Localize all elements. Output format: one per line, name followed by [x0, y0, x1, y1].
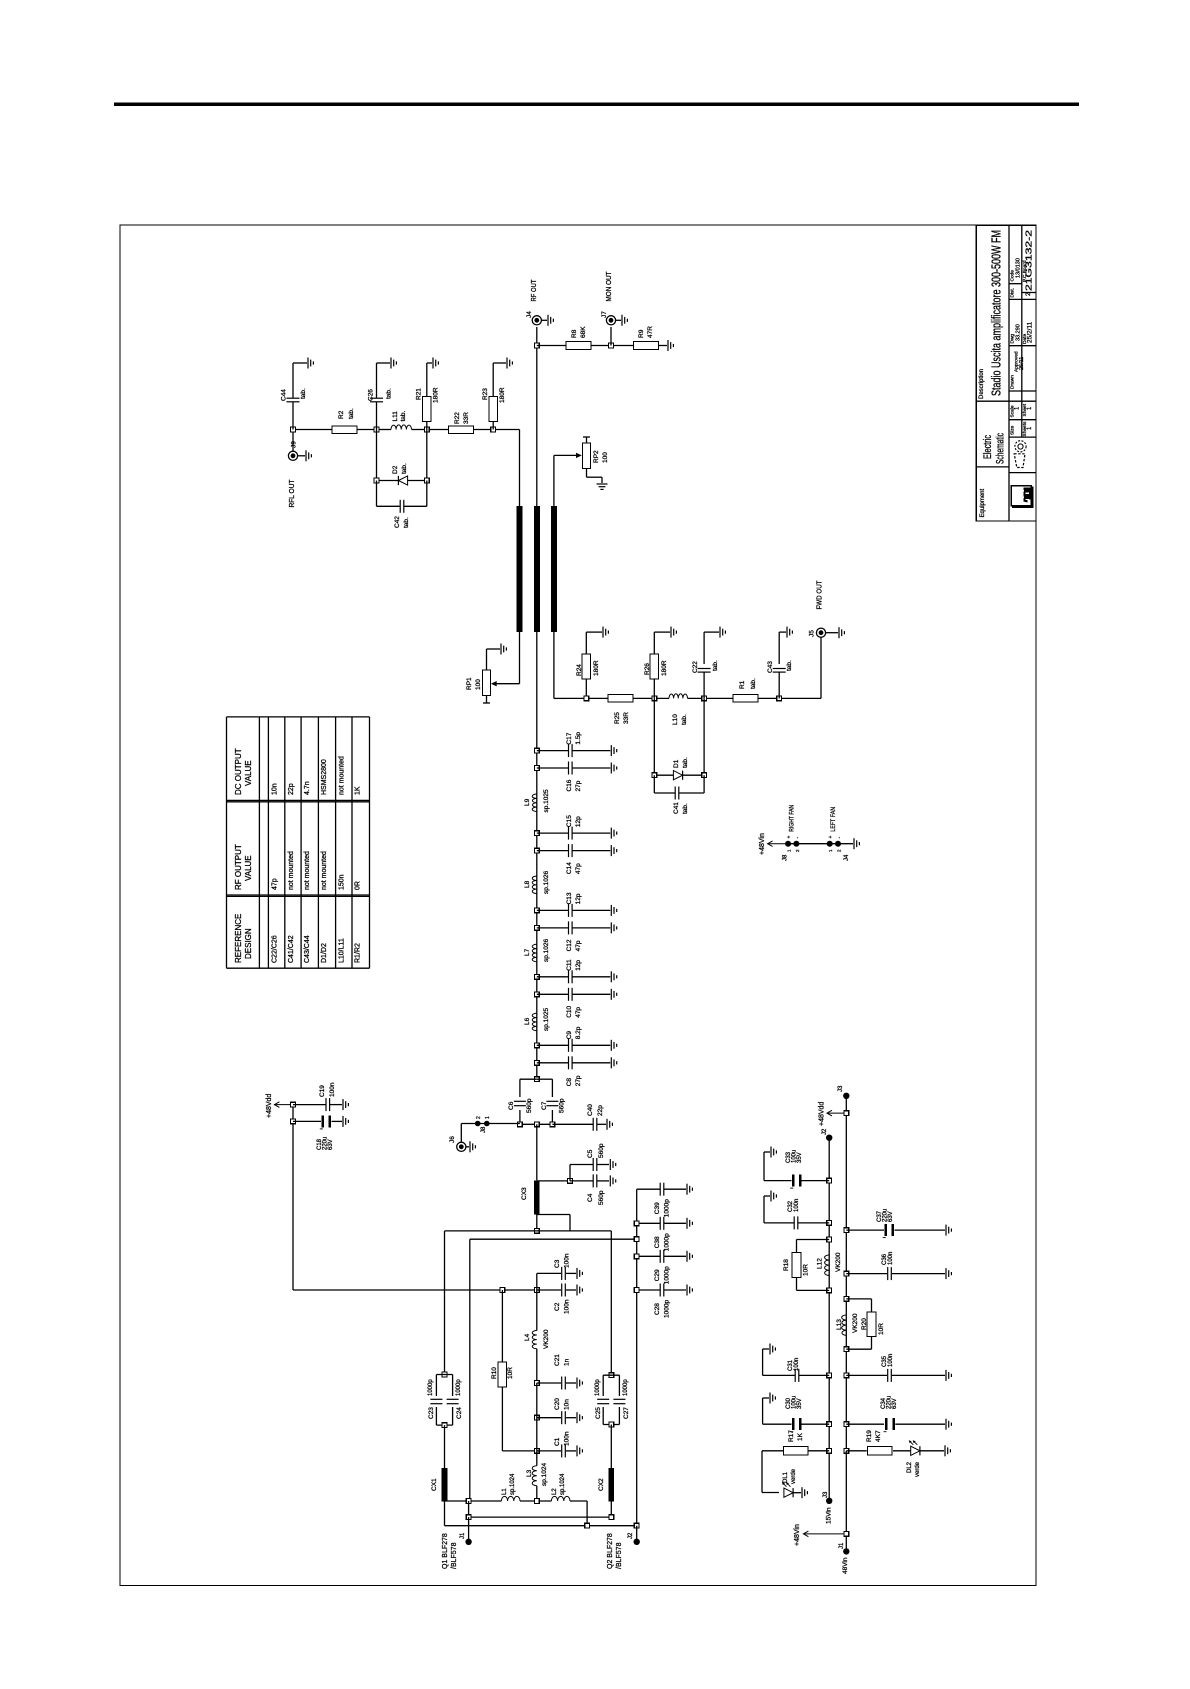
- ground at R26: [670, 627, 672, 638]
- svg-text:verde: verde: [791, 1468, 797, 1484]
- svg-text:C25: C25: [595, 1407, 602, 1419]
- node junction J7/R9: [609, 343, 614, 348]
- wire CX3 top to C4 row: [537, 1180, 570, 1182]
- ground at J5: [826, 632, 838, 634]
- svg-text:R22: R22: [454, 412, 461, 424]
- connector J4 RF OUT: [532, 316, 541, 325]
- capacitor C19: [293, 1104, 326, 1106]
- capacitor C39: [637, 1188, 660, 1190]
- connector J6: [457, 1142, 466, 1151]
- node junction C30: [827, 1422, 832, 1427]
- svg-text:1n: 1n: [564, 1358, 571, 1366]
- resistor R2: [332, 426, 357, 434]
- capacitor C37: [846, 1229, 884, 1231]
- node junction row3 right: [634, 1523, 639, 1528]
- capacitor C16: [537, 767, 569, 769]
- svg-text:RP2: RP2: [593, 450, 600, 463]
- capacitor C15: [537, 832, 569, 834]
- svg-text:C14: C14: [566, 862, 573, 874]
- svg-text:25/2/11: 25/2/11: [1027, 321, 1034, 343]
- led DL1: [784, 1488, 793, 1497]
- svg-text:560p: 560p: [526, 1098, 533, 1113]
- coupler line bar1 lower to RP1 wiper: [519, 632, 521, 684]
- svg-text:R17: R17: [788, 1430, 795, 1442]
- svg-text:Size: Size: [1010, 425, 1016, 435]
- resistor R19: [846, 1450, 866, 1452]
- svg-text:Stadio Uscita amplificatore 30: Stadio Uscita amplificatore 300-500W FM: [989, 230, 1004, 396]
- svg-text:CX2: CX2: [598, 1478, 605, 1491]
- svg-text:VK200: VK200: [835, 1252, 842, 1272]
- svg-text:D1: D1: [673, 759, 680, 768]
- svg-text:560p: 560p: [559, 1098, 566, 1113]
- capacitor C11: [537, 976, 569, 978]
- svg-text:tab.: tab.: [403, 517, 410, 528]
- wire J4 line to R8 row: [537, 345, 566, 347]
- svg-text:RIGHT FAN: RIGHT FAN: [789, 805, 796, 832]
- svg-text:RF OUTPUT: RF OUTPUT: [234, 844, 243, 890]
- svg-text:C43: C43: [767, 661, 774, 673]
- ground at R24: [602, 627, 604, 638]
- svg-text:J5: J5: [809, 630, 816, 637]
- svg-text:tab.: tab.: [348, 408, 355, 419]
- svg-text:Q2 BLF278: Q2 BLF278: [607, 1533, 614, 1569]
- wire FWD row: [566, 697, 608, 699]
- svg-text:VALUE: VALUE: [244, 855, 253, 881]
- title block logo cone: [1015, 441, 1026, 452]
- potentiometer RP1: [486, 649, 488, 670]
- svg-text:C16: C16: [566, 779, 573, 791]
- svg-text:1000p: 1000p: [664, 1300, 671, 1318]
- svg-text:sp.1026: sp.1026: [543, 938, 550, 962]
- capacitor C14: [537, 850, 569, 852]
- svg-text:10n: 10n: [564, 1399, 571, 1410]
- svg-text:4K7: 4K7: [875, 1430, 882, 1442]
- svg-text:180R: 180R: [433, 387, 440, 403]
- node junction C29: [634, 1254, 639, 1259]
- svg-text:L8: L8: [524, 880, 531, 888]
- wire bus A gate-bias rail: [445, 1230, 612, 1232]
- node junction L13 top: [844, 1297, 849, 1302]
- svg-text:1: 1: [485, 1116, 491, 1119]
- svg-text:R8: R8: [571, 329, 578, 338]
- wire J6 to J8 row: [460, 1124, 462, 1143]
- svg-text:not mounted: not mounted: [304, 851, 311, 890]
- capacitor C13: [537, 909, 569, 911]
- node junction C38: [634, 1221, 639, 1226]
- connector J2 gate: [636, 1526, 638, 1539]
- svg-text:/BLF578: /BLF578: [451, 1542, 458, 1569]
- svg-text:sp.1025: sp.1025: [543, 789, 550, 813]
- node junction C34: [844, 1422, 849, 1427]
- svg-text:L10: L10: [672, 714, 679, 725]
- svg-text:C21: C21: [554, 1354, 561, 1366]
- svg-text:47p: 47p: [575, 1007, 582, 1018]
- node junction C14: [534, 848, 539, 853]
- capacitor C40: [552, 1123, 593, 1125]
- svg-text:1K: 1K: [355, 786, 362, 795]
- svg-text:+48Vdd: +48Vdd: [266, 1094, 273, 1118]
- svg-text:560p: 560p: [598, 1190, 605, 1205]
- svg-text:C15: C15: [566, 815, 573, 827]
- svg-text:63V: 63V: [888, 1211, 894, 1222]
- svg-text:J4: J4: [526, 311, 533, 318]
- svg-text:Dist.: Dist.: [1010, 288, 1016, 298]
- svg-text:33.290: 33.290: [1016, 324, 1022, 341]
- svg-text:L10/L11: L10/L11: [339, 938, 346, 963]
- svg-text:RF OUT: RF OUT: [529, 279, 538, 301]
- svg-text:R26: R26: [644, 663, 651, 675]
- svg-text:10n: 10n: [272, 783, 279, 795]
- node junction R10 top: [500, 1288, 505, 1293]
- svg-text:C2: C2: [554, 1302, 561, 1311]
- title block frame: [976, 225, 1036, 521]
- wire gate row1: [445, 1500, 502, 1502]
- wire: RFL OUT main line: [293, 429, 332, 431]
- capacitor C9: [537, 1044, 569, 1046]
- svg-text:tab.: tab.: [401, 463, 408, 474]
- svg-text:2: 2: [1025, 292, 1032, 296]
- svg-text:63V: 63V: [892, 1398, 898, 1409]
- svg-text:47p: 47p: [272, 878, 279, 890]
- capacitor C20: [536, 1383, 538, 1418]
- wire: J4 RF OUT down to coupler bar2: [536, 327, 538, 506]
- svg-text:4.7n: 4.7n: [304, 781, 311, 795]
- capacitor pair C25/C27 block: [609, 1373, 614, 1378]
- directional coupler bar CX-B: [534, 506, 540, 632]
- svg-text:C40: C40: [587, 1104, 594, 1116]
- node junction C6/C7 top: [534, 1077, 539, 1082]
- connector pins J8: [475, 1121, 481, 1127]
- capacitor C6: [520, 1078, 537, 1080]
- svg-text:tab.: tab.: [786, 660, 793, 671]
- svg-text:1000p: 1000p: [623, 1379, 629, 1396]
- node junction C17: [534, 748, 539, 753]
- node junction C21: [534, 1381, 539, 1386]
- svg-text:C8: C8: [566, 1078, 573, 1087]
- svg-text:R1: R1: [739, 680, 746, 689]
- svg-text:J3: J3: [838, 1085, 844, 1092]
- capacitor C4: [570, 1180, 593, 1182]
- capacitor C26: [376, 402, 378, 430]
- resistor R25: [608, 695, 633, 703]
- svg-text:33R: 33R: [623, 712, 630, 724]
- wire right supply bus: [845, 1096, 847, 1451]
- connector J2 +48Vdd: [826, 1135, 832, 1141]
- wire left supply bus: [828, 1138, 830, 1501]
- node junction C22: [702, 696, 707, 701]
- svg-text:+48Vdd: +48Vdd: [819, 1102, 826, 1126]
- svg-text:1000p: 1000p: [595, 1379, 601, 1396]
- svg-text:Drawn: Drawn: [1010, 375, 1016, 389]
- svg-text:25/11: 25/11: [1019, 357, 1025, 370]
- inductor L2: [551, 1496, 570, 1501]
- svg-text:C26: C26: [368, 389, 375, 401]
- ground at RP1: [500, 644, 502, 655]
- node junction CX3/bus A: [534, 1229, 539, 1234]
- capacitor C44: [292, 402, 294, 430]
- inductor L4: [536, 1290, 538, 1331]
- svg-text:Description: Description: [979, 369, 985, 399]
- svg-text:verde: verde: [915, 1461, 921, 1477]
- svg-text:C5: C5: [587, 1149, 594, 1158]
- node junction CX2 bottom: [609, 1515, 614, 1520]
- svg-text:sp.1024: sp.1024: [541, 1462, 548, 1486]
- svg-text:+: +: [787, 836, 793, 839]
- node junction R18 bottom: [827, 1288, 832, 1293]
- svg-text:L9: L9: [524, 798, 531, 806]
- svg-text:27p: 27p: [575, 1075, 582, 1086]
- svg-text:tab.: tab.: [682, 803, 689, 814]
- svg-text:C41: C41: [673, 802, 680, 814]
- ground at J7: [616, 319, 621, 321]
- svg-text:C12: C12: [566, 939, 573, 951]
- capacitor C1: [536, 1418, 538, 1451]
- svg-text:DL1: DL1: [783, 1471, 789, 1483]
- svg-text:21G3132-2: 21G3132-2: [1025, 229, 1034, 291]
- svg-text:LEFT FAN: LEFT FAN: [830, 807, 837, 832]
- connector J1 48Vin: [843, 1548, 849, 1554]
- capacitor C34: [846, 1423, 884, 1425]
- svg-text:C39: C39: [654, 1202, 661, 1214]
- wire filter output to CX3: [536, 1124, 538, 1180]
- node junction R26: [652, 696, 657, 701]
- svg-text:tab.: tab.: [682, 757, 689, 768]
- svg-text:L6: L6: [524, 1017, 531, 1025]
- inductor L3: [536, 1451, 538, 1466]
- svg-text:C42: C42: [394, 516, 401, 528]
- drawing frame border: [120, 225, 1036, 1586]
- node junction C2 row: [534, 1288, 539, 1293]
- node junction C37: [844, 1228, 849, 1233]
- svg-text:sp.1024: sp.1024: [560, 1473, 566, 1495]
- svg-text:R9: R9: [638, 329, 645, 338]
- net entry +48Vdd right: [827, 1112, 844, 1114]
- inductor L10: [669, 694, 688, 699]
- wire: RFL node to coupler bar1: [493, 429, 519, 431]
- inductor L11: [391, 425, 412, 430]
- svg-text:not mounted: not mounted: [288, 851, 295, 890]
- svg-text:10R: 10R: [878, 1323, 885, 1335]
- svg-text:0R: 0R: [355, 881, 362, 890]
- inductor L13: [842, 1315, 847, 1335]
- svg-text:47p: 47p: [575, 940, 582, 951]
- svg-text:10R: 10R: [507, 1367, 514, 1379]
- resistor R10: [501, 1290, 503, 1362]
- svg-text:C22: C22: [692, 661, 699, 673]
- wire: RP2 wiper to coupler bar3: [553, 455, 555, 506]
- svg-text:FWD OUT: FWD OUT: [815, 580, 824, 609]
- svg-text:RFL OUT: RFL OUT: [287, 479, 296, 507]
- svg-text:J2: J2: [628, 1532, 634, 1539]
- capacitor C31: [799, 1374, 829, 1376]
- connector J5 FWD OUT: [816, 628, 825, 637]
- capacitor C35: [846, 1374, 887, 1376]
- led DL2: [911, 1446, 920, 1455]
- node junction C20: [534, 1415, 539, 1420]
- node junction C13: [534, 908, 539, 913]
- resistor R8: [566, 342, 591, 350]
- svg-text:C22/C26: C22/C26: [272, 935, 279, 963]
- svg-text:100n: 100n: [329, 1082, 336, 1097]
- svg-text:C43/C44: C43/C44: [304, 935, 311, 963]
- svg-text:C17: C17: [566, 732, 573, 744]
- resistor R22: [449, 426, 474, 434]
- svg-text:RP1: RP1: [466, 677, 473, 690]
- svg-text:tab.: tab.: [386, 388, 393, 399]
- svg-text:8.2p: 8.2p: [575, 1026, 582, 1039]
- svg-text:not mounted: not mounted: [321, 851, 328, 890]
- connector J7 MON OUT: [610, 327, 612, 346]
- coupler line bar3 lower to FWD row: [553, 632, 555, 698]
- svg-text:180R: 180R: [499, 387, 506, 403]
- wire C25/C27 to CX2: [610, 1425, 612, 1469]
- inductor L9: [532, 794, 537, 812]
- svg-text:J2: J2: [822, 1128, 828, 1135]
- svg-text:R24: R24: [576, 664, 583, 676]
- svg-text:VALUE: VALUE: [244, 760, 253, 786]
- svg-text:J7: J7: [601, 311, 608, 318]
- svg-text:R1/R2: R1/R2: [355, 943, 362, 963]
- node junction C32: [827, 1221, 832, 1226]
- title block row lines right column: [1009, 298, 1036, 300]
- svg-text:100n: 100n: [564, 1299, 571, 1314]
- svg-text:1K: 1K: [797, 1432, 804, 1441]
- resistor R24: [585, 632, 587, 654]
- ground at DL1: [801, 1487, 803, 1498]
- net entry +48Vin fans: [768, 843, 788, 845]
- svg-text:J4: J4: [844, 854, 850, 861]
- capacitor C42: [376, 481, 378, 507]
- svg-text:L3: L3: [526, 1469, 533, 1477]
- svg-text:C7: C7: [541, 1101, 548, 1110]
- potentiometer RP2: [586, 437, 588, 443]
- svg-text:C44: C44: [281, 389, 288, 401]
- svg-text:J1: J1: [839, 1542, 845, 1549]
- node junction R21/D2 branch: [424, 427, 429, 432]
- capacitor C2: [537, 1289, 561, 1291]
- resistor R23: [492, 421, 494, 429]
- svg-text:J3: J3: [823, 1491, 829, 1498]
- capacitor C29: [637, 1255, 660, 1257]
- ground after R9: [659, 345, 668, 347]
- wire source row3: [444, 1501, 446, 1525]
- svg-text:C27: C27: [623, 1407, 630, 1419]
- capacitor C8: [537, 1062, 569, 1064]
- svg-text:L11: L11: [392, 411, 399, 422]
- wire CX3 bottom to bias bus: [536, 1215, 538, 1231]
- resistor R17: [808, 1450, 829, 1452]
- svg-text:100n: 100n: [794, 1199, 800, 1212]
- node junction C36: [844, 1271, 849, 1276]
- svg-text:tab.: tab.: [681, 714, 688, 725]
- svg-text:CX1: CX1: [431, 1478, 438, 1491]
- node junction C28: [634, 1288, 639, 1293]
- node junction C16: [534, 766, 539, 771]
- capacitor pair C23/C24 block: [442, 1372, 447, 1377]
- top rule line: [114, 103, 1079, 107]
- capacitor C36: [846, 1273, 887, 1275]
- capacitor C28: [637, 1289, 660, 1291]
- resistor R1: [733, 695, 758, 703]
- svg-text:63V: 63V: [328, 1139, 334, 1150]
- node junction C1: [534, 1449, 539, 1454]
- wire C43 node up to J5: [820, 638, 822, 699]
- svg-text:180R: 180R: [661, 660, 668, 676]
- svg-text:1000p: 1000p: [664, 1233, 671, 1251]
- svg-text:100n: 100n: [888, 1354, 894, 1367]
- svg-text:DC OUTPUT: DC OUTPUT: [234, 748, 243, 795]
- wire +48Vdd entry to bias row: [292, 1105, 294, 1290]
- svg-text:sp.1024: sp.1024: [510, 1473, 516, 1495]
- wiper arrow RP1: [496, 683, 520, 685]
- resistor R21: [426, 421, 428, 429]
- svg-text:REFERENCE: REFERENCE: [234, 914, 243, 963]
- node junction J4 line to R8: [534, 343, 539, 348]
- node junction +48Vdd arrow: [844, 1111, 849, 1116]
- svg-text:+48Vin: +48Vin: [794, 1524, 801, 1546]
- svg-text:10R: 10R: [803, 1264, 810, 1276]
- wire R1 to C43 node: [758, 697, 821, 699]
- svg-text:C11: C11: [566, 959, 573, 971]
- svg-text:100: 100: [475, 679, 482, 690]
- svg-text:1000p: 1000p: [664, 1266, 671, 1284]
- svg-text:C28: C28: [654, 1303, 661, 1315]
- svg-text:L4: L4: [524, 1333, 531, 1341]
- svg-text:1000p: 1000p: [456, 1379, 462, 1396]
- connector J3 15Vin: [826, 1498, 832, 1504]
- svg-text:R2: R2: [338, 410, 345, 419]
- svg-text:100n: 100n: [564, 1253, 571, 1268]
- svg-text:C3: C3: [554, 1259, 561, 1268]
- svg-text:CX3: CX3: [521, 1187, 528, 1200]
- svg-text:35V: 35V: [797, 1152, 803, 1163]
- svg-text:R10: R10: [491, 1367, 498, 1379]
- coax transformer CX3: [534, 1180, 539, 1214]
- ground at RP2: [597, 483, 608, 485]
- svg-text:C6: C6: [508, 1101, 515, 1110]
- ground at DL2: [944, 1445, 946, 1456]
- node junction C18: [291, 1119, 296, 1124]
- connector J8 RIGHT FAN: [785, 841, 791, 847]
- node junction L3 bottom: [534, 1499, 539, 1504]
- svg-text:tab.: tab.: [750, 678, 757, 689]
- svg-text:35V: 35V: [797, 1398, 803, 1409]
- svg-text:tab.: tab.: [712, 660, 719, 671]
- svg-text:100n: 100n: [794, 1358, 800, 1371]
- diode D1: [653, 698, 655, 775]
- svg-text:48Vin: 48Vin: [842, 1557, 849, 1574]
- svg-text:C24: C24: [456, 1407, 463, 1419]
- svg-text:R19: R19: [866, 1430, 873, 1442]
- capacitor C32: [798, 1222, 829, 1224]
- node junction C35: [844, 1373, 849, 1378]
- ground at fan row: [853, 838, 855, 849]
- components table: [226, 717, 228, 968]
- node junction C15: [534, 831, 539, 836]
- svg-text:sp.1026: sp.1026: [543, 870, 550, 894]
- svg-text:+: +: [828, 836, 834, 839]
- connector J9 RFL OUT: [292, 430, 294, 452]
- node junction R23 branch: [491, 427, 496, 432]
- node junction C43: [777, 696, 782, 701]
- connector J4 LEFT FAN: [827, 841, 833, 847]
- node junction C9: [534, 1043, 539, 1048]
- svg-text:J8: J8: [783, 854, 789, 861]
- svg-text:R18: R18: [783, 1259, 790, 1271]
- node junction C33: [827, 1178, 832, 1183]
- svg-text:tab.: tab.: [300, 388, 307, 399]
- svg-text:D1/D2: D1/D2: [321, 943, 328, 963]
